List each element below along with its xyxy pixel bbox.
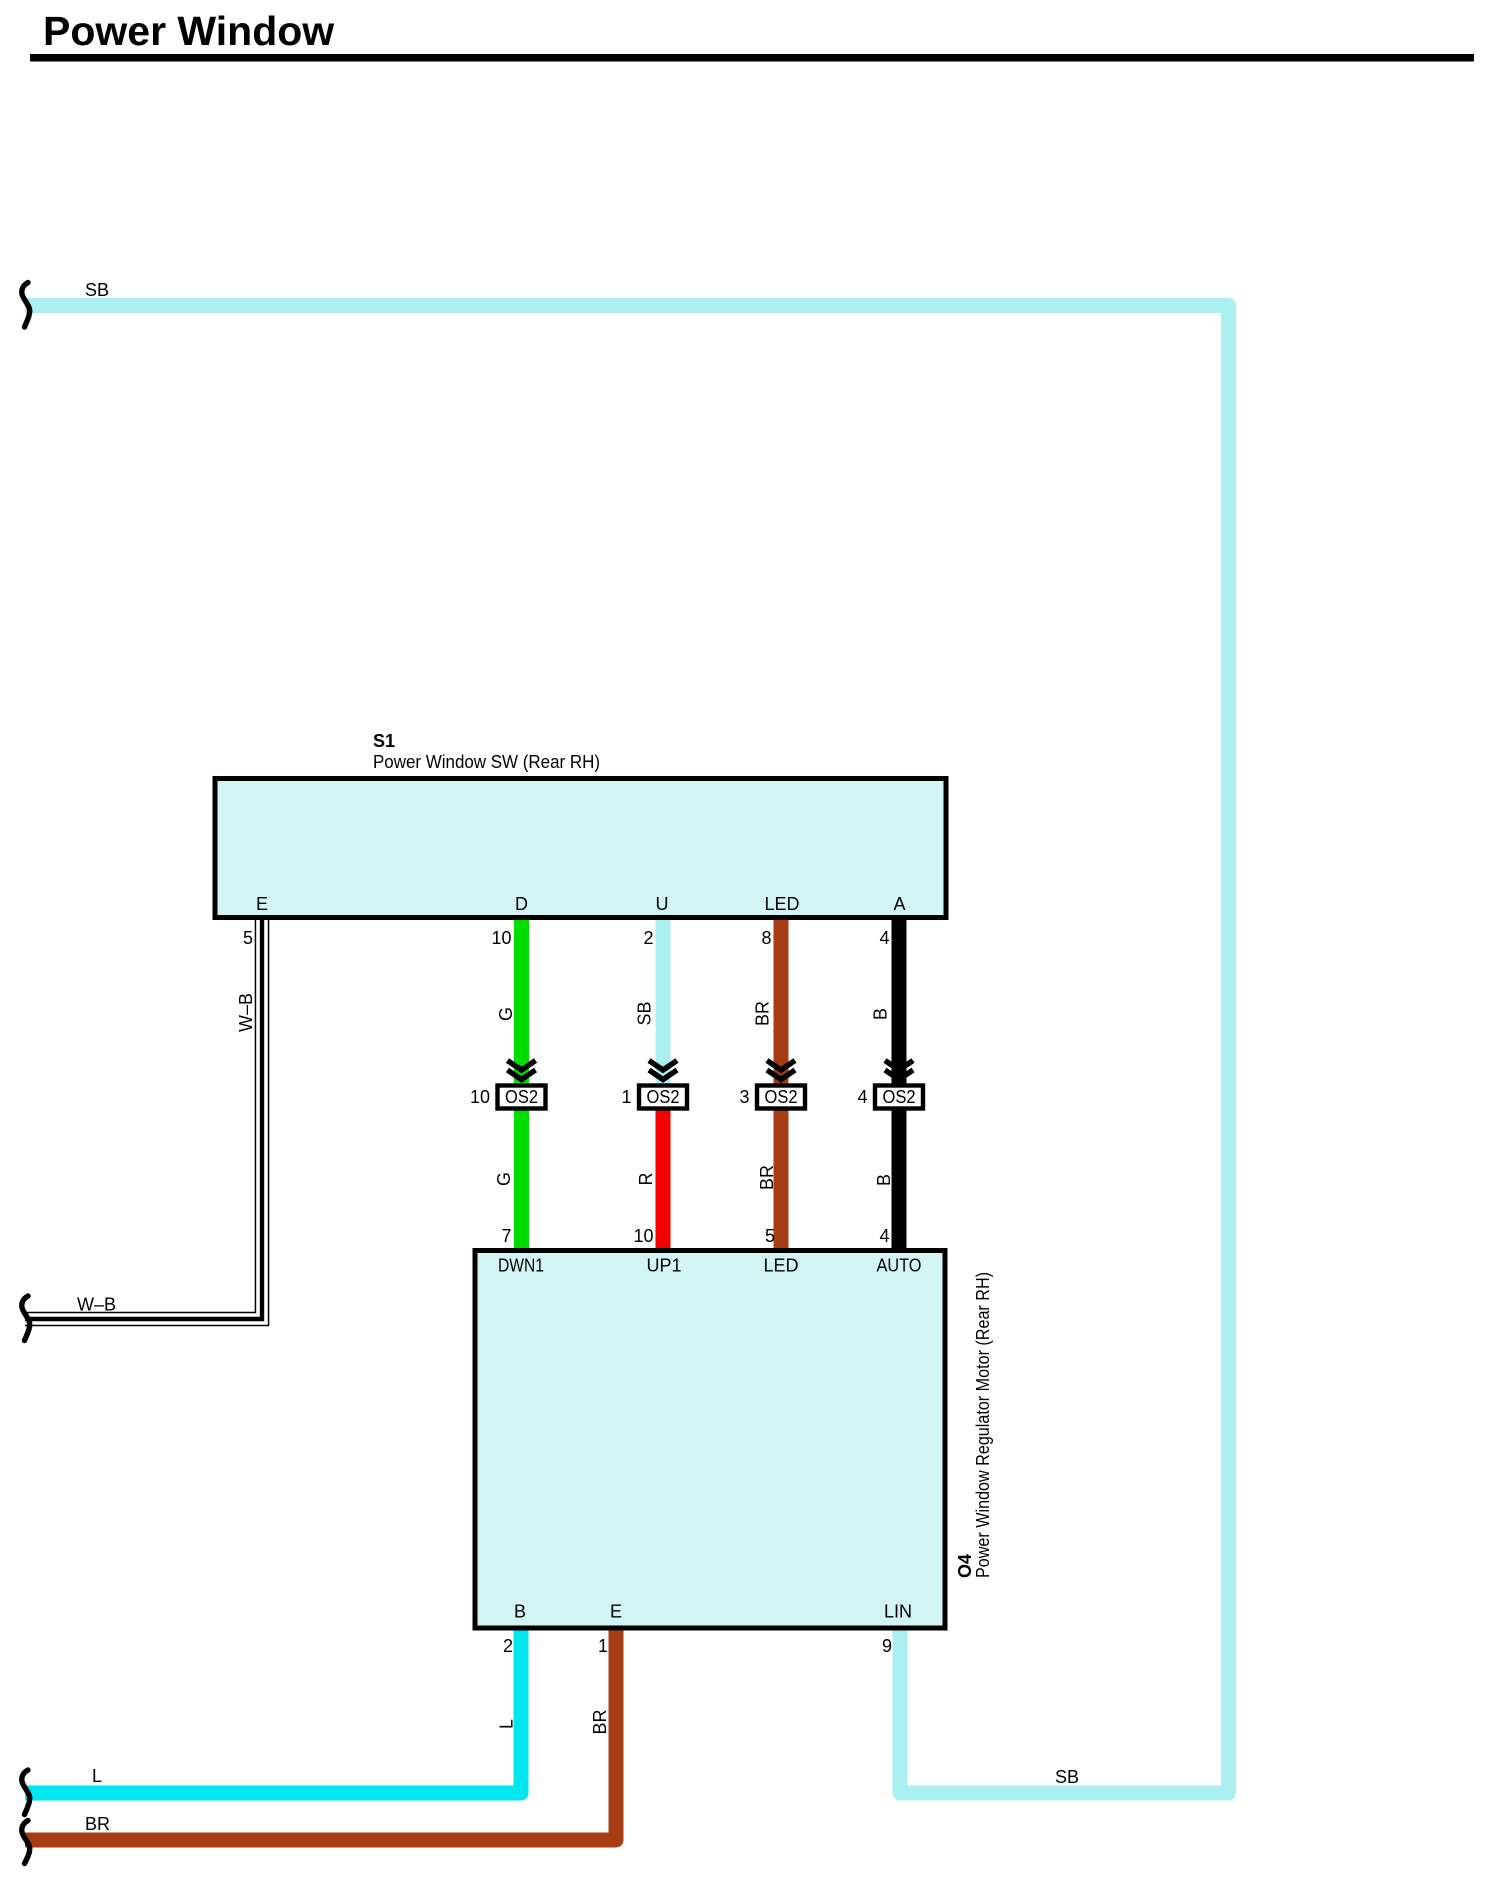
wire W-B black center stripe (25, 920, 262, 1319)
svg-text:UP1: UP1 (646, 1256, 681, 1276)
svg-text:4: 4 (879, 1226, 889, 1246)
svg-text:D: D (515, 894, 528, 914)
break symbol (squiggle) SB top left (22, 283, 30, 328)
svg-text:OS2: OS2 (505, 1087, 538, 1107)
wire W-B (S1 pin E to left edge) outer black (25, 920, 262, 1319)
svg-text:1: 1 (598, 1636, 608, 1656)
svg-text:LED: LED (764, 894, 799, 914)
wire B (OS2 down to O4 AUTO) (892, 1110, 907, 1250)
svg-text:W–B: W–B (236, 993, 256, 1032)
component O4 Power Window Regulator Motor (Rear RH) box (475, 1251, 945, 1629)
svg-text:AUTO: AUTO (877, 1256, 922, 1276)
wire BR (O4 pin E down and left to edge) (25, 1626, 616, 1840)
title Power Window (43, 8, 334, 54)
svg-text:BR: BR (757, 1165, 777, 1190)
wire W-B white body (25, 920, 262, 1319)
connector OS2 (SB/R wire) (621, 1061, 687, 1109)
svg-text:4: 4 (879, 928, 889, 948)
svg-text:Power Window Regulator Motor (: Power Window Regulator Motor (Rear RH) (973, 1272, 993, 1578)
svg-text:SB: SB (85, 280, 109, 300)
svg-text:3: 3 (739, 1087, 749, 1107)
svg-text:G: G (496, 1007, 516, 1021)
svg-text:10: 10 (470, 1087, 490, 1107)
svg-text:OS2: OS2 (883, 1087, 916, 1107)
svg-text:SB: SB (635, 1001, 655, 1025)
svg-text:10: 10 (491, 928, 511, 948)
svg-text:LIN: LIN (884, 1602, 912, 1622)
svg-text:Power Window SW (Rear RH): Power Window SW (Rear RH) (373, 752, 600, 772)
wire G (OS2 down to O4 DWN1) (514, 1110, 529, 1250)
svg-text:OS2: OS2 (647, 1087, 680, 1107)
svg-text:LED: LED (763, 1256, 798, 1276)
connector OS2 (BR wire) (739, 1061, 805, 1109)
svg-text:BR: BR (85, 1814, 110, 1834)
connector OS2 (G wire) (470, 1061, 546, 1109)
wire B (S1 pin A down to OS2) (892, 920, 907, 1084)
break symbol (squiggle) W-B left (22, 1296, 30, 1341)
wire L (O4 pin B down and left to edge) (25, 1626, 521, 1793)
svg-text:G: G (494, 1172, 514, 1186)
wire SB (S1 pin U down to OS2) (656, 920, 671, 1084)
svg-text:4: 4 (857, 1087, 867, 1107)
wire R (OS2 down to O4 UP1) (656, 1110, 671, 1250)
svg-text:2: 2 (643, 928, 653, 948)
component S1 Power Window SW (Rear RH) box (215, 779, 946, 918)
svg-text:S1: S1 (373, 731, 395, 751)
svg-text:O4: O4 (955, 1554, 975, 1578)
svg-text:E: E (256, 894, 268, 914)
svg-text:B: B (871, 1008, 891, 1020)
wire BR (OS2 down to O4 LED) (774, 1110, 789, 1250)
svg-text:R: R (636, 1173, 656, 1186)
svg-text:5: 5 (765, 1226, 775, 1246)
svg-text:DWN1: DWN1 (498, 1256, 544, 1276)
svg-text:10: 10 (633, 1226, 653, 1246)
svg-text:9: 9 (882, 1636, 892, 1656)
svg-text:7: 7 (501, 1226, 511, 1246)
svg-text:L: L (92, 1766, 102, 1786)
svg-text:OS2: OS2 (765, 1087, 798, 1107)
wire BR (S1 pin LED down to OS2) (774, 920, 789, 1084)
svg-text:1: 1 (621, 1087, 631, 1107)
svg-text:B: B (514, 1602, 526, 1622)
wire G (S1 pin D down to OS2) (514, 920, 529, 1084)
svg-text:L: L (497, 1719, 517, 1729)
svg-text:8: 8 (761, 928, 771, 948)
svg-text:E: E (610, 1602, 622, 1622)
svg-text:B: B (874, 1174, 894, 1186)
svg-text:SB: SB (1055, 1767, 1079, 1787)
svg-text:BR: BR (590, 1709, 610, 1734)
svg-text:5: 5 (243, 928, 253, 948)
svg-text:W–B: W–B (77, 1295, 116, 1315)
svg-text:BR: BR (753, 1001, 773, 1026)
connector OS2 (B wire) (857, 1061, 923, 1109)
svg-text:Power Window: Power Window (43, 8, 334, 54)
svg-text:2: 2 (503, 1636, 513, 1656)
wire SB net (S1 U circuit loop: left edge to right, down, to LIN pin of O4) (25, 306, 1229, 1794)
break symbol (squiggle) BR left (22, 1821, 30, 1864)
svg-text:A: A (893, 894, 905, 914)
title underline rule (30, 54, 1474, 62)
svg-text:U: U (656, 894, 669, 914)
break symbol (squiggle) L left (22, 1770, 30, 1815)
